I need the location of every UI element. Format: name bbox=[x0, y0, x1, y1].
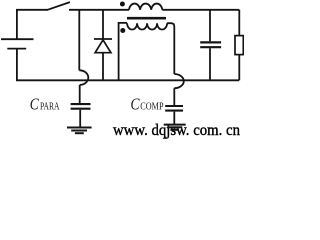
capacitor C_PARA bbox=[71, 104, 91, 109]
resistor R1 (load) bbox=[235, 36, 243, 55]
transformer T1 primary winding bbox=[129, 4, 162, 10]
hop: C_COMP branch crossing over bus bbox=[174, 74, 183, 88]
svg-text:COMP: COMP bbox=[140, 101, 163, 113]
wire: C_COMP to ground bbox=[173, 112, 175, 124]
capacitor C2 bbox=[200, 42, 221, 47]
wire: top-right corner down to resistor R1 bbox=[238, 10, 240, 36]
svg-text:PARA: PARA bbox=[40, 100, 60, 112]
wire: switch right contact to transformer primary bbox=[69, 9, 129, 11]
transformer T1 core bbox=[127, 17, 166, 20]
transformer T1 secondary polarity dot bbox=[120, 28, 125, 33]
svg-text:C: C bbox=[131, 95, 141, 114]
wire: rail down to output capacitor C2 bbox=[209, 10, 211, 42]
wire: resistor R1 to bus bbox=[238, 55, 240, 81]
transformer T1 primary polarity dot bbox=[120, 2, 125, 7]
wire: hop to capacitor C_COMP bbox=[173, 88, 175, 105]
battery B1 bbox=[1, 39, 34, 48]
hop: C_PARA branch crossing over bus bbox=[79, 70, 88, 85]
bottom bus wire bbox=[16, 79, 239, 81]
wire: secondary left lead down to bus bbox=[119, 23, 128, 80]
ground (under C_PARA) bbox=[67, 128, 92, 134]
ground (under C_COMP) bbox=[164, 125, 186, 130]
wire: C2 to bus bbox=[209, 48, 211, 80]
wire: secondary right lead down to C_COMP hop bbox=[167, 23, 174, 74]
wire: diode D1 to bus bbox=[102, 53, 104, 81]
capacitor C_COMP bbox=[165, 106, 183, 111]
wire: battery negative down to bus bbox=[16, 49, 18, 81]
wire: hop to capacitor C_PARA bbox=[79, 85, 81, 104]
wire: transformer primary to top-right corner bbox=[162, 9, 239, 11]
wire: rail down to diode D1 bbox=[102, 10, 104, 39]
wire: rail down to C_PARA hop bbox=[78, 10, 80, 71]
wire: battery positive to switch (top-left corner) bbox=[17, 10, 48, 39]
svg-text:C: C bbox=[30, 94, 40, 113]
transformer T1 secondary winding bbox=[127, 23, 167, 29]
wire: C_PARA to ground bbox=[79, 110, 81, 127]
diode D1 bbox=[94, 39, 112, 53]
switch S1 blade bbox=[48, 2, 70, 10]
